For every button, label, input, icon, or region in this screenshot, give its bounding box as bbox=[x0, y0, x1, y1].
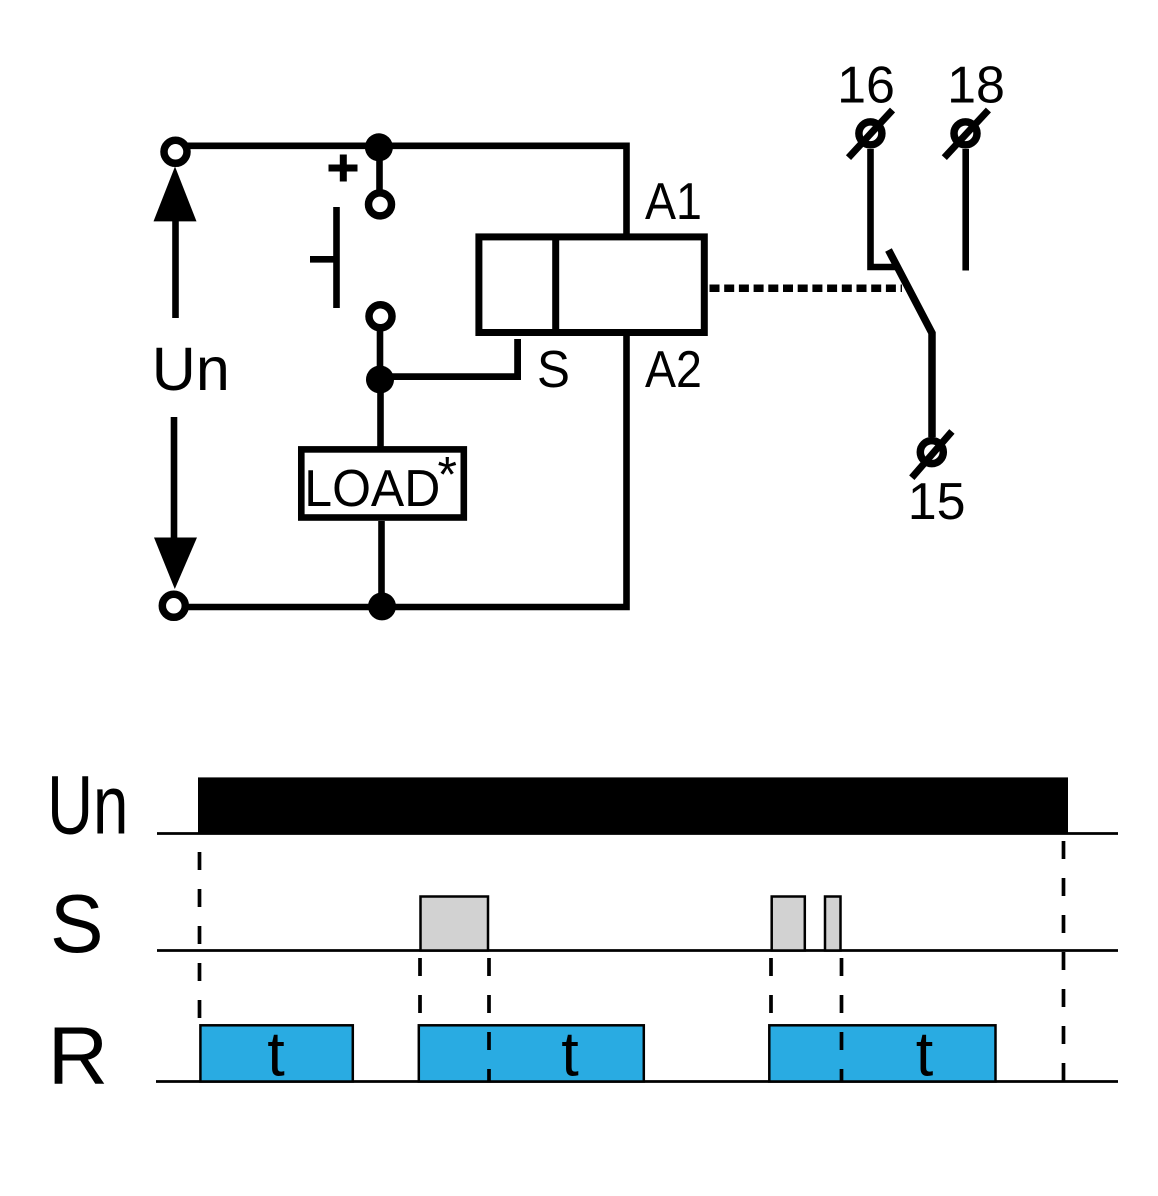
dashed line at S pulse1 end bbox=[487, 958, 491, 1081]
svg-text:A2: A2 bbox=[645, 341, 702, 399]
terminal 16 circle bbox=[859, 122, 882, 145]
LOAD box bbox=[301, 449, 464, 517]
terminal 18 circle bbox=[954, 122, 977, 145]
terminal top-left (open circle) bbox=[164, 140, 187, 163]
wire from 16 down with jog bbox=[871, 149, 896, 267]
Un arrow down bbox=[171, 417, 178, 540]
svg-text:16: 16 bbox=[837, 57, 895, 115]
timing: Un bar bbox=[198, 777, 1068, 834]
svg-text:S: S bbox=[50, 878, 104, 971]
relay box divider bbox=[552, 234, 559, 336]
svg-text:t: t bbox=[916, 1020, 934, 1090]
node junction top bbox=[365, 133, 393, 161]
dashed line at Un end bbox=[1062, 841, 1066, 1081]
wire bottom horizontal to A2 bbox=[188, 333, 627, 607]
plus label bbox=[329, 155, 358, 182]
svg-text:R: R bbox=[48, 1010, 108, 1102]
timing: R baseline bbox=[156, 1080, 1118, 1083]
svg-text:S: S bbox=[537, 340, 570, 398]
dashed line at S pulse2 start bbox=[769, 958, 773, 1023]
dashed line at Un start bbox=[198, 852, 202, 1023]
svg-text:t: t bbox=[561, 1020, 579, 1090]
svg-text:*: * bbox=[438, 446, 457, 502]
svg-text:15: 15 bbox=[908, 473, 966, 531]
wire junction to S pin of relay bbox=[380, 339, 518, 377]
wire LOAD to bottom junction bbox=[378, 521, 385, 606]
relay box U1 bbox=[479, 237, 704, 333]
svg-text:18: 18 bbox=[947, 57, 1005, 115]
switch S top contact (open circle) bbox=[369, 193, 392, 216]
wire from 18 down bbox=[962, 149, 969, 271]
timing: R bar 2 bbox=[419, 1025, 644, 1081]
timing: R bar 3 bbox=[769, 1025, 995, 1081]
switch S bottom contact (open circle) bbox=[369, 305, 392, 328]
terminal bottom-left (open circle) bbox=[162, 594, 185, 617]
svg-text:LOAD: LOAD bbox=[304, 459, 440, 517]
wire top horizontal to A1 corner bbox=[184, 146, 627, 237]
Un arrow up bbox=[154, 167, 197, 222]
timing: S pulse 1 bbox=[421, 897, 489, 951]
wire junction to LOAD bbox=[377, 379, 384, 451]
wire switch bottom to junction bbox=[377, 329, 384, 378]
terminal 16 slash bbox=[849, 110, 893, 158]
svg-text:Un: Un bbox=[47, 758, 128, 851]
terminal 15 circle bbox=[920, 441, 943, 464]
switch S actuator bbox=[310, 207, 337, 308]
timing: Un baseline bbox=[157, 832, 1118, 835]
svg-text:A1: A1 bbox=[645, 173, 702, 231]
node junction bottom bbox=[368, 592, 396, 620]
dashed line at S pulse1 start bbox=[418, 958, 422, 1023]
svg-text:t: t bbox=[267, 1020, 285, 1090]
terminal 18 slash bbox=[944, 110, 988, 158]
timing: S pulse 3 bbox=[825, 897, 841, 951]
contact lever bbox=[889, 250, 933, 437]
dashed line at S pulse3 end bbox=[840, 958, 844, 1081]
node junction mid bbox=[366, 366, 394, 394]
timing: S baseline bbox=[157, 949, 1118, 952]
wire junction to switch top contact bbox=[376, 147, 383, 192]
timing: R bar 1 bbox=[200, 1025, 352, 1081]
timing: S pulse 2 bbox=[772, 897, 805, 951]
svg-text:Un: Un bbox=[152, 335, 230, 403]
dotted mechanical link bbox=[710, 285, 903, 293]
terminal 15 slash bbox=[912, 431, 952, 477]
